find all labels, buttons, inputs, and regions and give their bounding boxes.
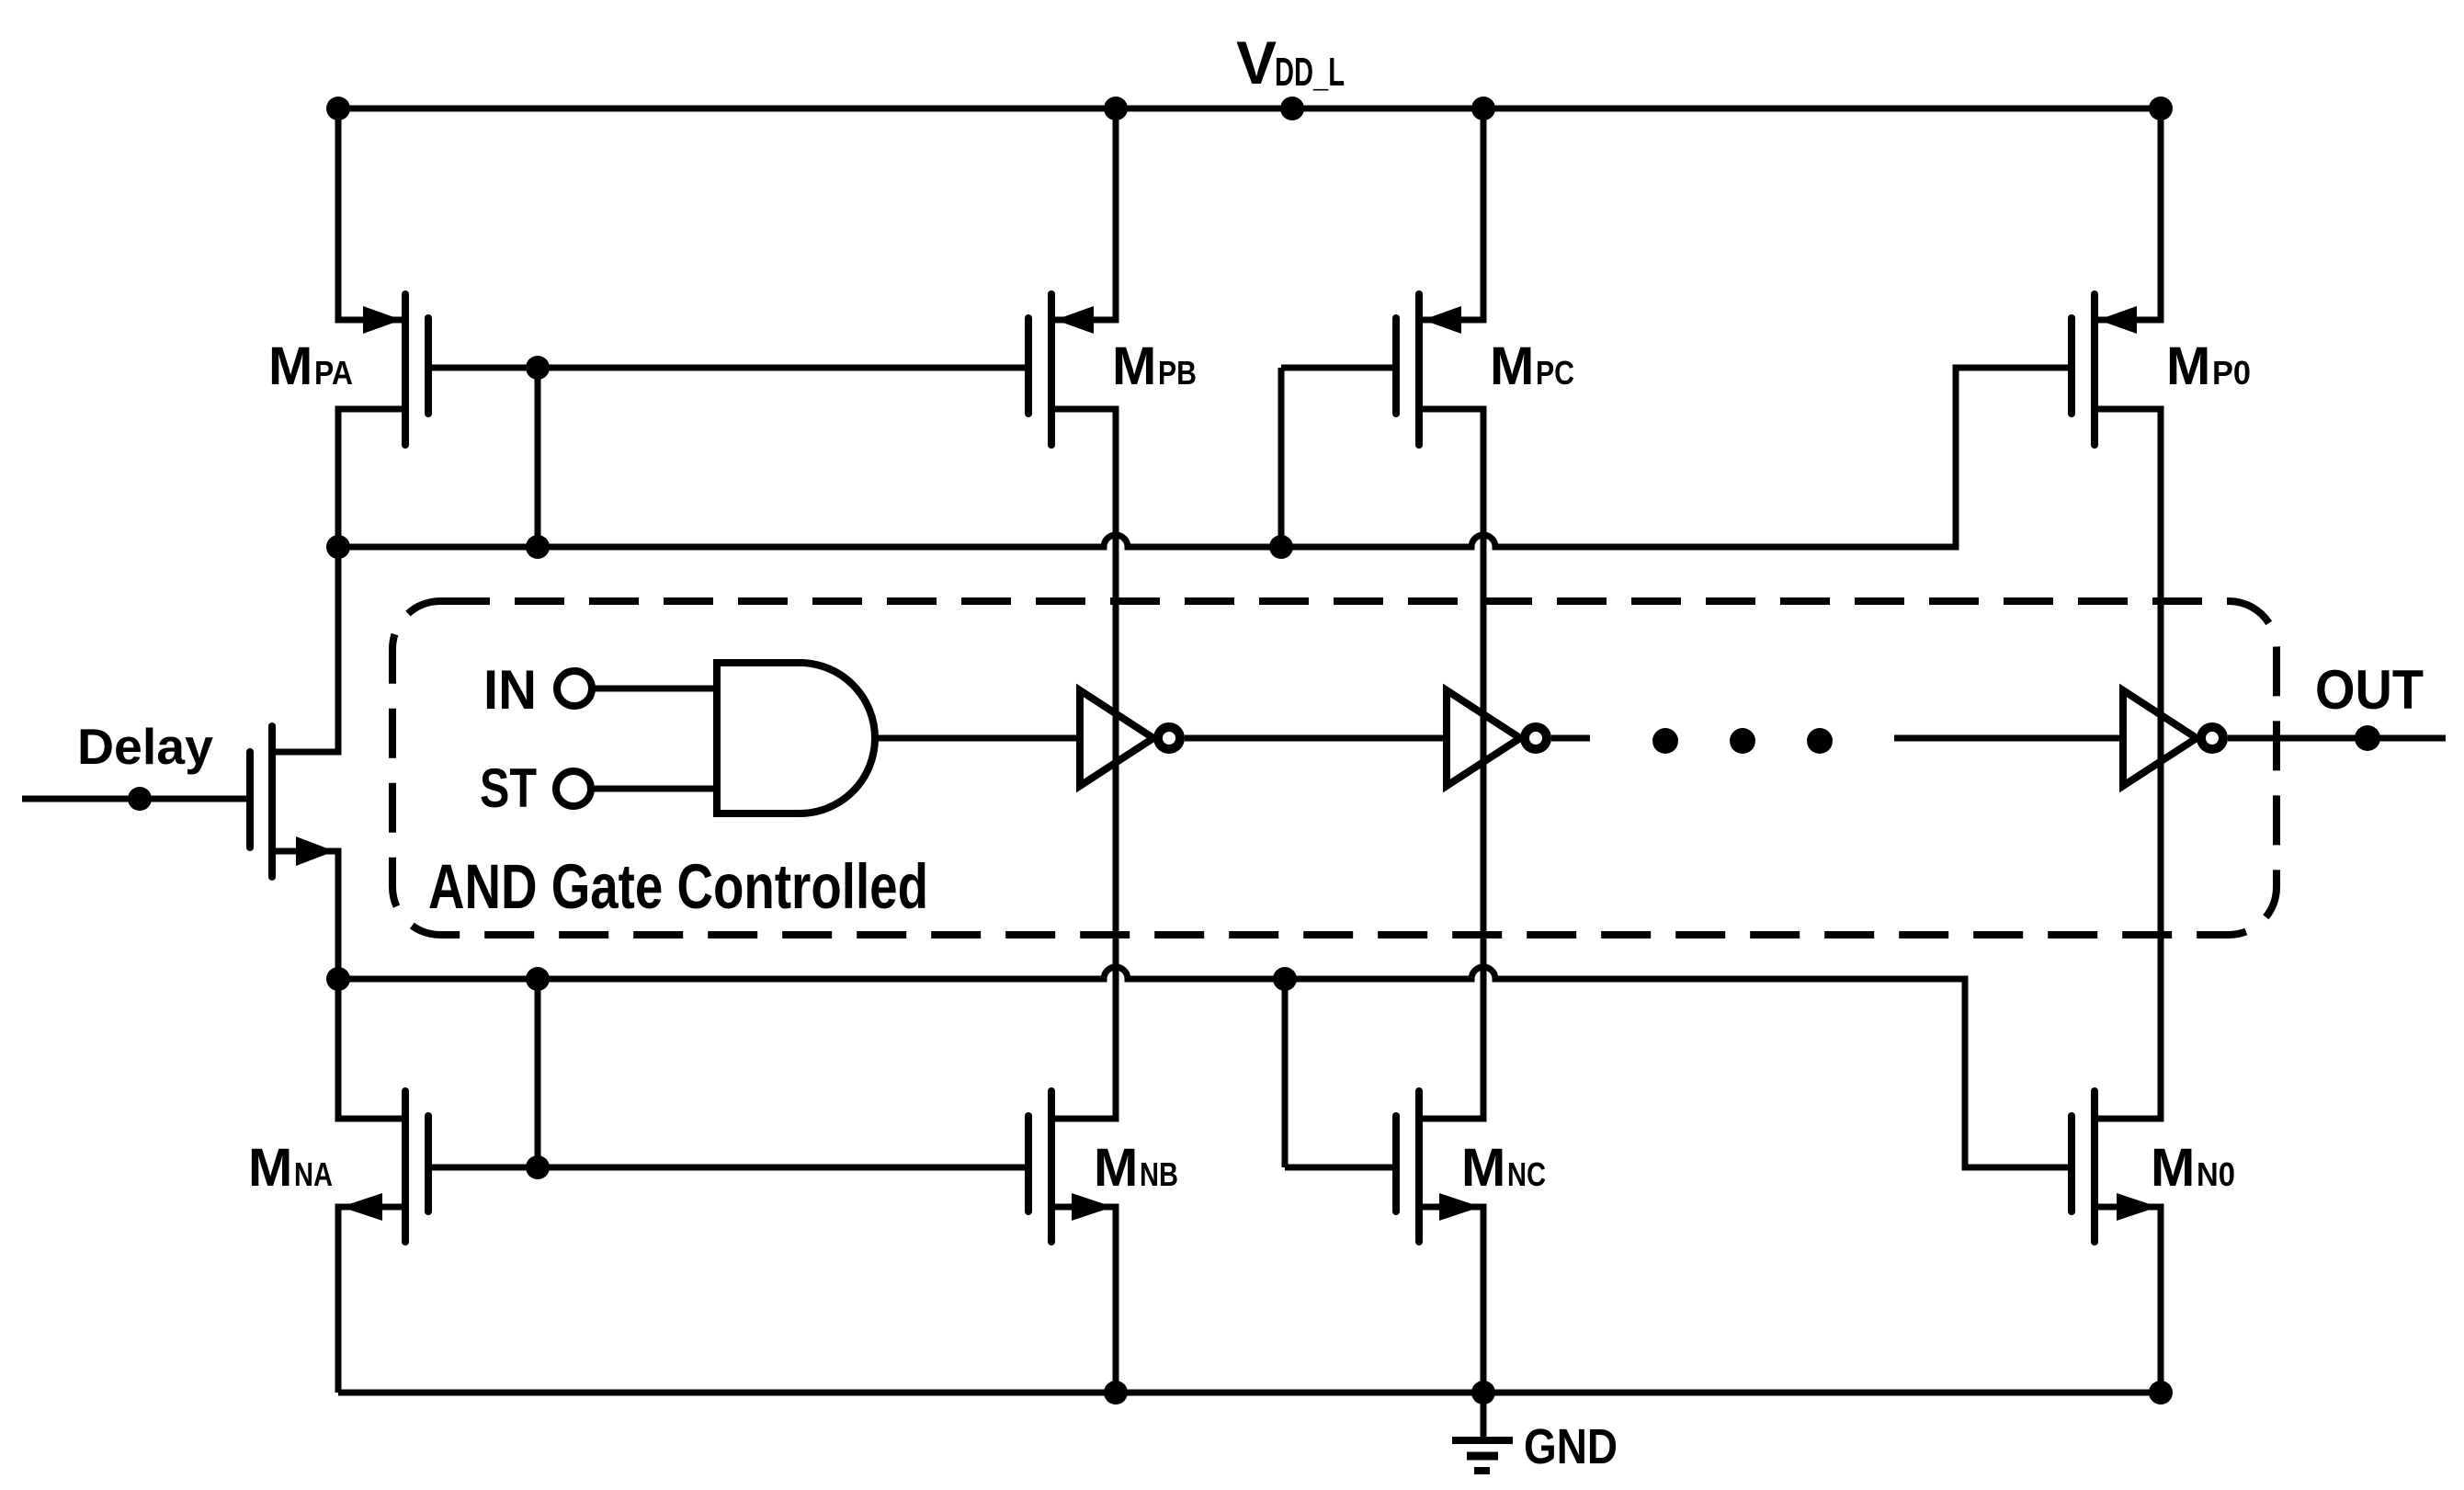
svg-text:M: M bbox=[2166, 336, 2210, 396]
svg-text:M: M bbox=[2151, 1138, 2195, 1198]
svg-text:PA: PA bbox=[314, 354, 353, 392]
svg-text:NB: NB bbox=[1140, 1155, 1178, 1193]
svg-text:M: M bbox=[1461, 1138, 1505, 1198]
svg-text:DD_L: DD_L bbox=[1275, 50, 1345, 95]
svg-text:PC: PC bbox=[1536, 354, 1574, 392]
svg-text:M: M bbox=[1490, 336, 1534, 396]
svg-text:ST: ST bbox=[480, 757, 537, 819]
svg-text:Delay: Delay bbox=[77, 718, 213, 775]
svg-text:GND: GND bbox=[1524, 1419, 1618, 1474]
svg-text:NA: NA bbox=[294, 1155, 333, 1193]
svg-text:PB: PB bbox=[1158, 354, 1197, 392]
svg-text:NC: NC bbox=[1507, 1155, 1546, 1193]
svg-text:M: M bbox=[1094, 1138, 1138, 1198]
svg-text:M: M bbox=[1112, 336, 1156, 396]
svg-text:P0: P0 bbox=[2212, 354, 2251, 392]
svg-text:AND Gate Controlled: AND Gate Controlled bbox=[428, 851, 928, 922]
svg-text:V: V bbox=[1236, 28, 1277, 97]
svg-text:M: M bbox=[268, 336, 312, 396]
svg-text:N0: N0 bbox=[2197, 1155, 2235, 1193]
svg-text:OUT: OUT bbox=[2315, 659, 2424, 721]
svg-text:M: M bbox=[248, 1138, 292, 1198]
svg-text:IN: IN bbox=[483, 659, 537, 721]
